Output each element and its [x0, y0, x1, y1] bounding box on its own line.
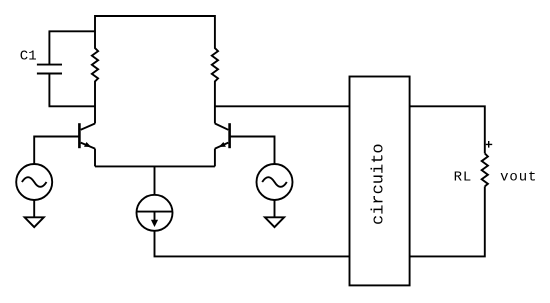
transistor Q2 emitter arrow	[219, 142, 226, 147]
ground right	[265, 217, 284, 227]
resistor left collector load	[92, 15, 98, 124]
svg-text:RL: RL	[454, 170, 473, 186]
wire left source lead up	[33, 136, 35, 165]
resistor right collector load	[212, 15, 218, 124]
wire current source bottom	[155, 231, 350, 257]
svg-text:vout: vout	[500, 170, 537, 186]
current source I1 arrow	[154, 212, 156, 221]
transistor Q2 emitter diagonal	[215, 143, 228, 149]
wire cap bottom to left collector node	[49, 105, 96, 107]
ac source V2 sine	[262, 177, 287, 187]
resistor RL	[482, 153, 488, 186]
ac source V2 circle	[257, 164, 293, 200]
wire Q2 collector to box	[215, 105, 350, 107]
wire emitter rail	[95, 165, 215, 167]
wire V2 to ground	[274, 200, 276, 217]
wire right source lead up	[274, 136, 276, 165]
wire cap top to left resistor	[49, 30, 96, 32]
box circuito	[350, 77, 410, 286]
capacitor C1	[37, 31, 62, 106]
svg-text:circuito: circuito	[370, 143, 389, 225]
ac source V1 circle	[16, 164, 52, 200]
wire top rail	[95, 15, 215, 17]
transistor Q1 collector diagonal	[81, 124, 95, 130]
wire V1 to ground	[33, 200, 35, 217]
wire box to RL top	[410, 106, 485, 153]
transistor Q1 base bar	[78, 123, 81, 148]
wire Q1 base	[34, 136, 79, 138]
ground left	[25, 217, 44, 227]
svg-text:C1: C1	[20, 49, 37, 65]
wire Q1 emitter down	[94, 149, 96, 167]
wire Q2 base	[230, 136, 275, 138]
transistor Q1 emitter diagonal	[81, 143, 95, 149]
current source I1 circle	[137, 195, 173, 231]
transistor Q1 emitter arrow	[84, 142, 91, 147]
wire RL bottom	[410, 186, 485, 256]
transistor Q2 base bar	[228, 123, 231, 148]
transistor Q2 collector diagonal	[215, 124, 228, 130]
current source I1 bar	[137, 211, 173, 213]
wire Q2 emitter down	[214, 149, 216, 167]
plus sign	[486, 141, 492, 148]
ac source V1 sine	[22, 177, 47, 187]
wire tail down to current source	[154, 166, 156, 194]
